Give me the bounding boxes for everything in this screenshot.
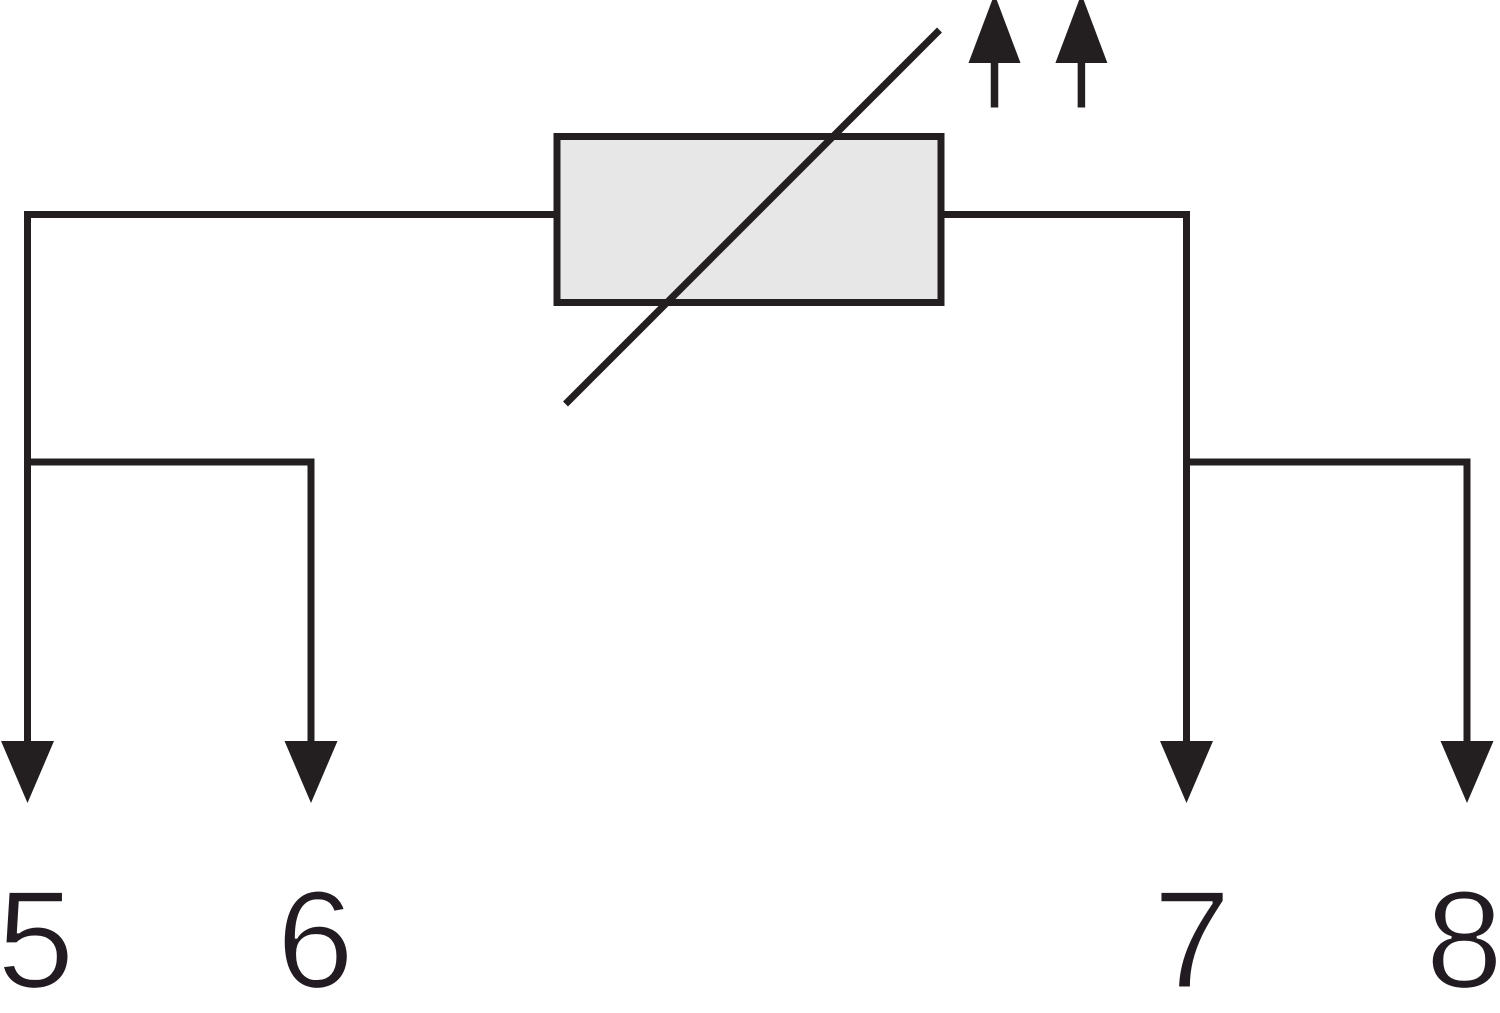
photoresistor diagonal adjustment stroke (566, 30, 940, 404)
photoresistor body (variable resistor rectangle) (557, 137, 941, 303)
terminal arrowhead pin 6 (285, 741, 338, 803)
terminal arrowhead pin 5 (1, 741, 54, 803)
terminal arrowhead pin 8 (1441, 741, 1494, 803)
wire: right vertical bus down to pin 7 arrow (1183, 211, 1190, 748)
wire: left lead from resistor body to left bus (24, 211, 558, 218)
wire: pin 6 vertical drop (308, 459, 315, 749)
light arrow 2 (up) stem (1078, 58, 1086, 108)
svg-text:7: 7 (1153, 863, 1230, 1013)
svg-text:8: 8 (1426, 863, 1500, 1013)
svg-text:5: 5 (0, 863, 74, 1013)
wire: left branch horizontal to pin 6 (24, 459, 315, 466)
wire: left vertical bus down to pin 5 arrow (24, 211, 31, 748)
wire: right branch horizontal to pin 8 (1183, 459, 1471, 466)
light arrow 2 (up) head (1055, 0, 1107, 63)
light arrow 1 (up) head (969, 0, 1021, 63)
wire: right lead from resistor body to right bus (940, 211, 1190, 218)
wire: pin 8 vertical drop (1464, 459, 1471, 749)
light arrow 1 (up) stem (991, 58, 999, 108)
svg-text:6: 6 (277, 863, 354, 1013)
terminal arrowhead pin 7 (1160, 741, 1213, 803)
